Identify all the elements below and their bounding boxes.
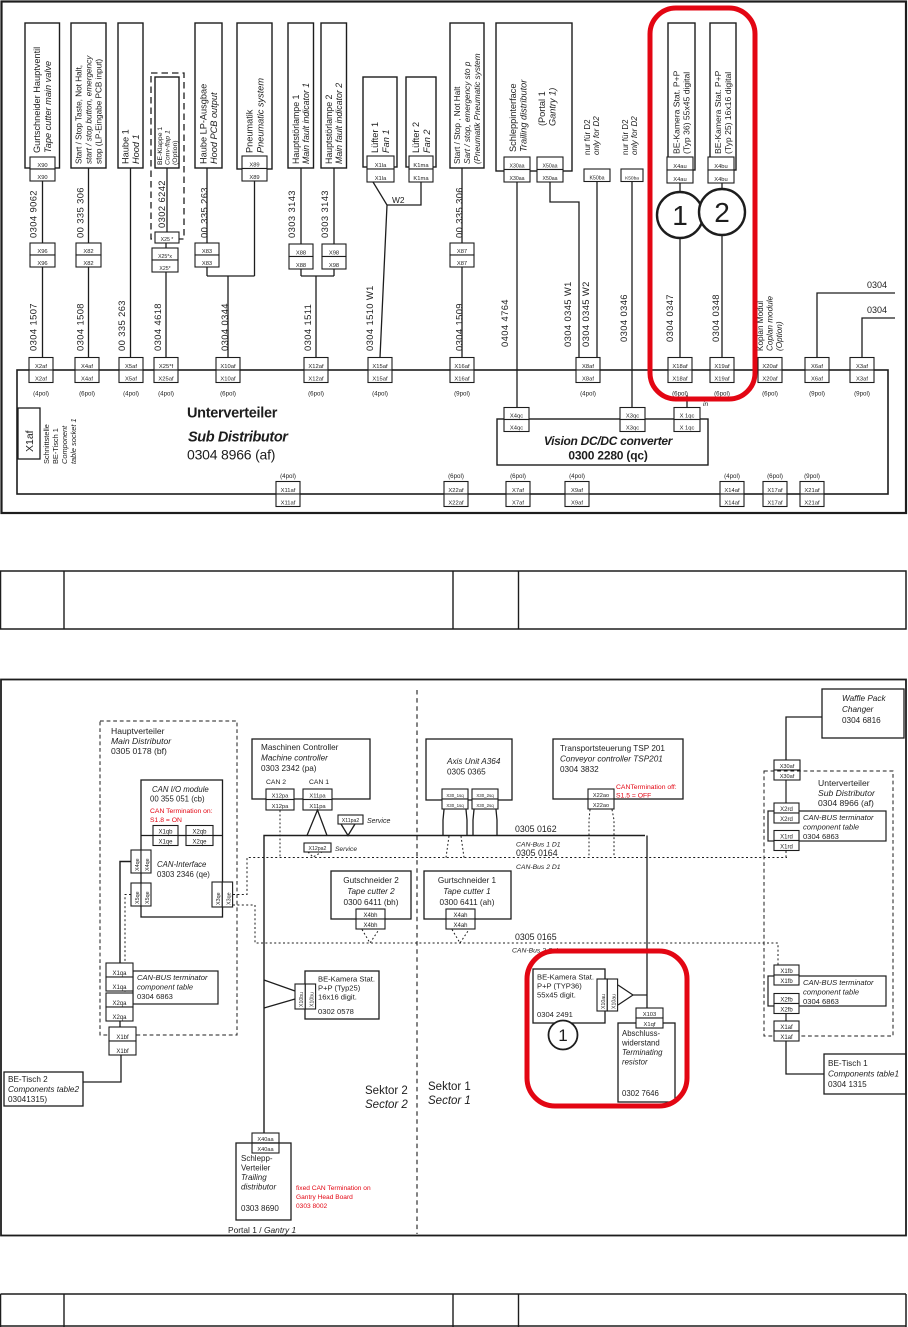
- svg-text:0304 8966 (af): 0304 8966 (af): [818, 798, 874, 808]
- legs X30_2sq to CAN bus 1: [473, 810, 474, 836]
- svg-text:0304 1507: 0304 1507: [28, 303, 39, 351]
- svg-text:X18af: X18af: [672, 364, 688, 370]
- bottom diagram outer frame: [1, 680, 906, 1236]
- svg-text:table socket 1: table socket 1: [69, 418, 78, 464]
- fork to X10au: [618, 985, 633, 1005]
- wire Gurtschneider to X2af: [42, 181, 44, 243]
- svg-text:X9af: X9af: [571, 500, 583, 506]
- svg-text:0305 0178 (bf): 0305 0178 (bf): [111, 746, 167, 756]
- svg-text:X9af: X9af: [571, 488, 583, 494]
- svg-text:0302 7646: 0302 7646: [622, 1089, 659, 1098]
- connector X2qa pair: [106, 993, 133, 1007]
- svg-text:0304 2491: 0304 2491: [537, 1010, 573, 1019]
- svg-text:0303 2342 (pa): 0303 2342 (pa): [261, 764, 317, 773]
- svg-text:X19af: X19af: [714, 364, 730, 370]
- svg-text:component table: component table: [137, 983, 193, 992]
- svg-text:X11pa: X11pa: [309, 793, 326, 799]
- svg-text:X11pa2: X11pa2: [342, 818, 360, 824]
- svg-text:Gantry Head Board: Gantry Head Board: [296, 1194, 353, 1201]
- svg-text:K50ba: K50ba: [625, 175, 639, 181]
- svg-text:X2rd: X2rd: [780, 807, 793, 813]
- svg-text:X88: X88: [296, 250, 306, 256]
- svg-text:Gantry 1: Gantry 1: [264, 1225, 296, 1235]
- wire indicator2 to junction: [333, 168, 335, 244]
- svg-text:X90: X90: [37, 163, 47, 169]
- svg-text:X15af: X15af: [372, 376, 388, 382]
- svg-text:resistor: resistor: [622, 1058, 648, 1067]
- connector X30_2sq pair: [472, 789, 498, 799]
- wire X30aa to Vision X4qc: [516, 182, 518, 408]
- svg-text:(9pol): (9pol): [454, 391, 470, 398]
- svg-text:Main fault indicator 2: Main fault indicator 2: [334, 83, 344, 164]
- svg-text:Maschinen Controller: Maschinen Controller: [261, 743, 339, 752]
- svg-text:(9pol): (9pol): [809, 391, 825, 398]
- connector X2rd pair: [774, 803, 799, 813]
- svg-text:X 1qc: X 1qc: [680, 413, 695, 419]
- svg-text:X4ah: X4ah: [453, 923, 467, 929]
- svg-text:Start / Stop Taste, Not Halt,: Start / Stop Taste, Not Halt,: [74, 65, 83, 164]
- bus connector X25*f: [154, 358, 178, 371]
- svg-text:(Option): (Option): [172, 140, 179, 165]
- component box: Pneumatik / Pneumatic system: [237, 23, 272, 169]
- svg-text:(6pol): (6pol): [510, 473, 526, 480]
- sector divider dashed line: [416, 690, 418, 1234]
- svg-text:(4pol): (4pol): [724, 473, 740, 480]
- svg-text:(6pol): (6pol): [220, 391, 236, 398]
- component box: Hauptstoerlampe 2 / Main fault indicator 2: [321, 23, 347, 168]
- svg-text:X10af: X10af: [220, 376, 236, 382]
- wire X50aa to X8af (W1): [550, 182, 579, 358]
- connector X12pa pair: [266, 789, 294, 800]
- svg-text:(4pol): (4pol): [580, 391, 596, 398]
- connector X4qe pair (rotated): [131, 850, 141, 873]
- top diagram outer frame: [2, 2, 907, 514]
- svg-text:BE-Kamera Stat.: BE-Kamera Stat.: [318, 975, 375, 984]
- svg-text:X103: X103: [643, 1012, 657, 1018]
- svg-text:00 355 051 (cb): 00 355 051 (cb): [150, 795, 205, 804]
- svg-text:X21af: X21af: [804, 488, 820, 494]
- svg-text:CAN-BUS terminator: CAN-BUS terminator: [803, 978, 874, 987]
- svg-text:X10au: X10au: [601, 994, 607, 1009]
- svg-text:0305 0164: 0305 0164: [516, 848, 558, 858]
- svg-text:X3qc: X3qc: [626, 425, 639, 431]
- svg-text:0304: 0304: [867, 280, 887, 290]
- svg-text:X4ah: X4ah: [453, 913, 467, 919]
- svg-text:X30af: X30af: [780, 764, 795, 770]
- svg-text:P+P (TYP36): P+P (TYP36): [537, 982, 582, 991]
- svg-text:00 335 306: 00 335 306: [75, 187, 86, 238]
- svg-text:Verteiler: Verteiler: [241, 1164, 271, 1173]
- svg-text:X89: X89: [249, 162, 259, 168]
- svg-text:X4af: X4af: [81, 376, 93, 382]
- svg-text:Hood PCB output: Hood PCB output: [209, 92, 219, 164]
- svg-text:X12pa2: X12pa2: [309, 846, 327, 852]
- svg-text:X12pa: X12pa: [272, 793, 290, 799]
- svg-text:X4bh: X4bh: [363, 923, 377, 929]
- svg-text:0304 1510 W1: 0304 1510 W1: [364, 285, 375, 351]
- connector K1ma pair under Fan 2: [409, 156, 433, 169]
- wire Haube1 to X5af: [130, 168, 132, 358]
- dashed legs to CAN bus 2: [446, 836, 449, 858]
- svg-text:X12af: X12af: [308, 364, 324, 370]
- svg-text:0304 0346: 0304 0346: [618, 294, 629, 342]
- svg-text:BE-Kamera Stat. P+P: BE-Kamera Stat. P+P: [713, 70, 723, 154]
- svg-text:only for D2: only for D2: [592, 116, 601, 155]
- connector X4au pair under BE-Kamera Typ36: [667, 157, 693, 170]
- connector X87 pair: [450, 243, 474, 255]
- bottom table strip: [1, 1293, 907, 1295]
- svg-text:X30_1sq: X30_1sq: [446, 803, 464, 808]
- svg-text:X1qe: X1qe: [158, 839, 173, 845]
- svg-text:2: 2: [714, 197, 730, 228]
- svg-text:X83: X83: [202, 249, 212, 255]
- wire Fan2 W2: [387, 182, 421, 205]
- bus connector X8af: [576, 358, 600, 371]
- svg-text:X17af: X17af: [767, 488, 783, 494]
- svg-text:BE-Kamera Stat. P+P: BE-Kamera Stat. P+P: [672, 70, 682, 154]
- connector X1af pair (bottom): [774, 1021, 799, 1031]
- svg-text:0304 1508: 0304 1508: [75, 303, 86, 351]
- svg-text:Transportsteuerung TSP 201: Transportsteuerung TSP 201: [560, 744, 665, 753]
- svg-text:X4bu: X4bu: [714, 177, 728, 183]
- svg-text:X25*f: X25*f: [159, 364, 174, 370]
- connector X11pa2 service: [338, 815, 363, 824]
- svg-text:X3af: X3af: [856, 364, 868, 370]
- dashed fork X4bh to CAN-Bus 2 Sub: [362, 930, 379, 944]
- svg-text:(4pol): (4pol): [123, 391, 139, 398]
- connector X30_1sq pair: [442, 789, 468, 799]
- wire X4au to circle 1: [679, 183, 681, 192]
- svg-text:Schlepp-: Schlepp-: [241, 1154, 273, 1163]
- wire CAN bus 1 to X10au/X103: [646, 836, 648, 1009]
- CAN-BUS terminator box (right upper): [768, 811, 886, 841]
- svg-text:X90: X90: [37, 175, 47, 181]
- svg-text:start / stop button, emergency: start / stop button, emergency: [84, 55, 93, 164]
- svg-text:Gurtschneider 1: Gurtschneider 1: [438, 876, 497, 885]
- svg-text:component table: component table: [803, 823, 859, 832]
- connector X2fb pair: [774, 994, 799, 1004]
- connector X1rd pair: [774, 831, 799, 841]
- wire Koplan X6af riser: [817, 293, 895, 358]
- wire pneumatic stop to X16af: [461, 168, 463, 243]
- svg-text:X30aa: X30aa: [509, 163, 524, 169]
- svg-text:X3qc: X3qc: [626, 413, 639, 419]
- svg-text:Service: Service: [335, 846, 357, 853]
- Vision DC/DC converter box: [497, 419, 708, 465]
- svg-text:0300 2280 (qc): 0300 2280 (qc): [568, 449, 647, 463]
- svg-text:X1qf: X1qf: [644, 1022, 656, 1028]
- svg-text:X4qe: X4qe: [145, 858, 151, 871]
- svg-text:BE-Kamera Stat.: BE-Kamera Stat.: [537, 973, 594, 982]
- connector X5qe pair (rotated): [131, 883, 141, 906]
- svg-text:in: in: [703, 401, 708, 408]
- svg-text:X12af: X12af: [308, 376, 324, 382]
- component box: Gurtschneider Hauptventil / Tape cutter main valve: [25, 23, 60, 168]
- svg-text:X4qc: X4qc: [510, 413, 523, 419]
- svg-text:widerstand: widerstand: [621, 1039, 660, 1048]
- svg-text:fixed CAN Termination on: fixed CAN Termination on: [296, 1185, 371, 1192]
- svg-text:(9pol): (9pol): [804, 473, 820, 480]
- svg-text:Schnittstelle: Schnittstelle: [42, 424, 51, 464]
- CAN I/O module + CAN-Interface box: [141, 780, 223, 917]
- svg-text:Tape cutter 1: Tape cutter 1: [443, 887, 491, 896]
- svg-text:Tape cutter main valve: Tape cutter main valve: [43, 61, 53, 153]
- svg-text:Fan 2: Fan 2: [422, 130, 432, 154]
- bus connector X16af: [450, 358, 474, 371]
- svg-text:(6pol): (6pol): [672, 391, 688, 398]
- svg-text:X96: X96: [37, 249, 47, 255]
- bus connector X5af: [119, 358, 143, 371]
- wire Fan1 to X15af with W2 join: [373, 182, 387, 358]
- connector X30af pair: [774, 760, 800, 770]
- component box: Luefter 1 / Fan 1: [363, 77, 397, 167]
- connector X83 pair: [195, 243, 219, 255]
- svg-text:Unterverteiler: Unterverteiler: [187, 406, 278, 422]
- svg-text:X11af: X11af: [281, 500, 296, 506]
- component box: Hauptstoerlampe 1 / Main fault indicator 1: [288, 23, 314, 168]
- svg-text:X40aa: X40aa: [257, 1147, 274, 1153]
- component box: Haube LP-Ausgabe / Hood PCB output: [195, 23, 222, 168]
- svg-text:Fan 1: Fan 1: [381, 130, 391, 154]
- svg-text:(4pol): (4pol): [372, 391, 388, 398]
- svg-text:X83: X83: [202, 261, 212, 267]
- CAN-BUS terminator component table box (left): [133, 971, 218, 1004]
- svg-text:Coplan module: Coplan module: [765, 295, 774, 351]
- svg-text:Sector 1: Sector 1: [428, 1095, 471, 1107]
- legs X30_1sq to CAN bus 1: [443, 810, 444, 836]
- svg-text:X11af: X11af: [281, 488, 296, 494]
- svg-text:Sub Distributor: Sub Distributor: [818, 788, 876, 798]
- svg-text:CAN 1: CAN 1: [309, 779, 329, 786]
- svg-text:0304 6863: 0304 6863: [803, 832, 839, 841]
- svg-text:0304 6816: 0304 6816: [842, 716, 881, 725]
- svg-text:00 335 306: 00 335 306: [454, 187, 465, 238]
- svg-text:CAN-Bus 2 D1: CAN-Bus 2 D1: [516, 864, 561, 871]
- connector X88 pair: [289, 244, 313, 257]
- connector K50ba (first): [584, 169, 610, 182]
- wire Start/Stop to X4af: [88, 168, 90, 243]
- svg-text:0304 9062: 0304 9062: [28, 190, 39, 238]
- svg-text:(6pol): (6pol): [448, 473, 464, 480]
- wire X4bu to circle 2: [721, 183, 723, 189]
- BE-Tisch 1 box: [824, 1054, 906, 1094]
- bus connector X20af: [758, 358, 782, 371]
- svg-text:X87: X87: [457, 249, 467, 255]
- svg-text:Sub Distributor: Sub Distributor: [188, 430, 289, 446]
- svg-text:S1.8 = ON: S1.8 = ON: [150, 817, 182, 824]
- svg-text:X22ao: X22ao: [593, 793, 609, 799]
- svg-text:Conv-flap 1: Conv-flap 1: [164, 130, 171, 165]
- svg-text:Waffle Pack: Waffle Pack: [842, 694, 886, 703]
- svg-text:Components table2: Components table2: [8, 1085, 79, 1094]
- svg-text:Sektor 1: Sektor 1: [428, 1081, 471, 1093]
- component box: Start/Stop Taste Not Halt: [71, 23, 106, 168]
- svg-text:X21af: X21af: [804, 500, 820, 506]
- svg-text:K1ma: K1ma: [413, 163, 429, 169]
- svg-text:0304 6863: 0304 6863: [803, 997, 839, 1006]
- svg-text:(6pol): (6pol): [79, 391, 95, 398]
- svg-text:distributor: distributor: [241, 1183, 276, 1192]
- svg-text:X1la: X1la: [375, 163, 387, 169]
- svg-text:X50aa: X50aa: [542, 176, 557, 182]
- svg-text:(4pol): (4pol): [158, 391, 174, 398]
- wire X2fb to X1af: [785, 1014, 787, 1022]
- svg-text:0304 0347: 0304 0347: [664, 294, 675, 342]
- svg-text:0304 0345 W1: 0304 0345 W1: [562, 281, 573, 347]
- connector X12pa2 service: [304, 843, 331, 852]
- svg-text:(6pol): (6pol): [762, 391, 778, 398]
- svg-text:0303 2346 (qe): 0303 2346 (qe): [157, 870, 210, 879]
- svg-text:Lüfter 2: Lüfter 2: [411, 122, 421, 153]
- connector X1qa pair: [106, 963, 133, 977]
- svg-text:X1qb: X1qb: [158, 829, 173, 835]
- bus connector X15af: [368, 358, 392, 371]
- svg-text:X50aa: X50aa: [542, 163, 557, 169]
- svg-text:X82: X82: [83, 249, 93, 255]
- connector X3qe pair (rotated): [212, 882, 222, 907]
- bus connector X6af: [805, 358, 829, 371]
- connector X11pa pair: [303, 789, 332, 800]
- svg-text:Abschluss-: Abschluss-: [622, 1029, 661, 1038]
- svg-text:X3af: X3af: [856, 376, 868, 382]
- BE-Tisch 2 box: [4, 1072, 83, 1106]
- svg-text:Components table1: Components table1: [828, 1070, 899, 1079]
- svg-text:BE-Klappe 1: BE-Klappe 1: [157, 127, 164, 165]
- svg-text:X8af: X8af: [582, 376, 594, 382]
- svg-text:X98: X98: [329, 263, 339, 269]
- wire X1af to BE-Tisch 1: [786, 1041, 824, 1074]
- connector X1bf pair: [109, 1027, 136, 1041]
- svg-text:(Pneumatik Pneumatic system: (Pneumatik Pneumatic system: [473, 53, 482, 164]
- connector X22ao pair: [588, 789, 614, 799]
- svg-text:X98: X98: [329, 250, 339, 256]
- svg-text:Terminating: Terminating: [622, 1048, 663, 1057]
- svg-text:CAN 2: CAN 2: [266, 779, 286, 786]
- wire X2qa to X1bf: [119, 1021, 121, 1027]
- connector X1qc pair on Vision box: [674, 408, 700, 420]
- connector X4bh pair: [356, 909, 385, 919]
- svg-text:X2rd: X2rd: [780, 817, 793, 823]
- svg-text:(Option): (Option): [775, 321, 784, 351]
- dashed legs X22ao to CAN-Bus 2 D1: [589, 810, 590, 858]
- svg-text:X2af: X2af: [35, 376, 47, 382]
- svg-text:X30_2sq: X30_2sq: [476, 803, 494, 808]
- wire BE-Klappe to X25af: [166, 168, 168, 232]
- bus connector X2af: [29, 358, 53, 371]
- svg-text:CAN Termination on:: CAN Termination on:: [150, 808, 213, 815]
- svg-text:(4pol): (4pol): [569, 473, 585, 480]
- svg-text:X22af: X22af: [448, 500, 464, 506]
- svg-text:X10af: X10af: [220, 364, 236, 370]
- svg-text:Lüfter 1: Lüfter 1: [370, 122, 380, 153]
- svg-text:X17af: X17af: [767, 500, 783, 506]
- svg-text:X11pa: X11pa: [309, 804, 326, 810]
- svg-text:X4qc: X4qc: [510, 425, 523, 431]
- svg-text:X1fb: X1fb: [780, 979, 793, 985]
- Maschinen Controller box: [252, 739, 370, 799]
- svg-text:(4pol): (4pol): [33, 391, 49, 398]
- svg-text:1: 1: [558, 1026, 567, 1045]
- svg-text:X88: X88: [296, 263, 306, 269]
- svg-text:0300 6411 (bh): 0300 6411 (bh): [344, 898, 399, 907]
- svg-text:Schleppinterface: Schleppinterface: [508, 84, 518, 152]
- svg-text:stop (LP-Eingabe PCB input): stop (LP-Eingabe PCB input): [95, 59, 104, 164]
- svg-text:Vision DC/DC converter: Vision DC/DC converter: [544, 434, 674, 448]
- svg-text:X19af: X19af: [714, 376, 730, 382]
- svg-text:0304 1315: 0304 1315: [828, 1080, 867, 1089]
- svg-text:(6pol): (6pol): [767, 473, 783, 480]
- component box: Luefter 2 / Fan 2: [406, 77, 436, 167]
- svg-text:Pneumatik: Pneumatik: [244, 109, 254, 153]
- svg-text:CAN-BUS terminator: CAN-BUS terminator: [803, 813, 874, 822]
- svg-text:0303 8690: 0303 8690: [241, 1204, 279, 1213]
- svg-text:Unterverteiler: Unterverteiler: [818, 778, 870, 788]
- bus connector X3af: [850, 358, 874, 371]
- svg-text:0304 1509: 0304 1509: [454, 303, 465, 351]
- connector X3qc pair on Vision box: [620, 408, 645, 420]
- svg-text:Portal 1 /: Portal 1 /: [228, 1225, 262, 1235]
- svg-text:X4qe: X4qe: [135, 858, 141, 871]
- svg-text:0300 6411 (ah): 0300 6411 (ah): [440, 898, 495, 907]
- svg-text:0302 6242: 0302 6242: [156, 180, 167, 228]
- svg-text:0304: 0304: [867, 305, 887, 315]
- svg-text:Axis Unit A364: Axis Unit A364: [446, 757, 501, 766]
- svg-text:X1qa: X1qa: [112, 985, 127, 991]
- svg-text:CAN-Interface: CAN-Interface: [157, 860, 207, 869]
- svg-text:X1rd: X1rd: [780, 834, 793, 840]
- svg-text:X14af: X14af: [724, 500, 740, 506]
- svg-text:0303 8002: 0303 8002: [296, 1203, 328, 1210]
- svg-text:X2af: X2af: [35, 364, 47, 370]
- svg-text:X89: X89: [249, 175, 259, 181]
- wire K50ba2 to Vision X3qc: [631, 182, 633, 409]
- svg-text:0304 3832: 0304 3832: [560, 765, 599, 774]
- connector X10au pair (rotated): [597, 979, 607, 1011]
- connector X40aa pair: [252, 1133, 279, 1143]
- svg-text:X1af: X1af: [780, 1035, 793, 1041]
- dashed fork X4ah to CAN-Bus 2 Sub: [452, 930, 469, 944]
- CAN-BUS terminator box (right lower): [768, 976, 886, 1006]
- CAN-Bus 2 Sub dashed line: [233, 905, 778, 965]
- connector X4qc pair on Vision box: [504, 408, 529, 420]
- connector X30aa pair under Schleppinterface: [504, 157, 530, 170]
- component box: BE-Klappe 1 (Option), dashed outline: [151, 73, 184, 239]
- fork X11pa to CAN bus 1: [307, 810, 327, 836]
- svg-text:0304 8966 (af): 0304 8966 (af): [187, 447, 275, 463]
- bus connector X18af: [668, 358, 692, 371]
- connector X1qb/X1qe: [153, 826, 178, 836]
- svg-text:X1af: X1af: [24, 430, 36, 452]
- svg-text:Main fault indicator 1: Main fault indicator 1: [301, 83, 311, 164]
- svg-text:X5af: X5af: [125, 376, 137, 382]
- svg-text:component table: component table: [803, 988, 859, 997]
- Gurtschneider 1 / Tape cutter 1 box: [424, 871, 511, 919]
- connector X90 pair under Gurtschneider box: [30, 157, 55, 169]
- Axis Unit A364 box: [426, 739, 512, 800]
- svg-text:00 335 263: 00 335 263: [116, 300, 127, 351]
- connector X25* single: [155, 232, 179, 243]
- svg-text:0304 4618: 0304 4618: [152, 303, 163, 351]
- svg-text:Hauptstörlampe 2: Hauptstörlampe 2: [324, 94, 334, 164]
- svg-text:0304 0348: 0304 0348: [710, 294, 721, 342]
- svg-text:CAN I/O module: CAN I/O module: [152, 785, 209, 794]
- svg-text:K1ma: K1ma: [413, 176, 429, 182]
- connector X2qb/X2qe: [186, 826, 213, 836]
- connector X1fb pair: [774, 965, 799, 975]
- svg-text:Changer: Changer: [842, 705, 874, 714]
- svg-text:X1qa: X1qa: [112, 971, 127, 977]
- svg-text:nur für D2: nur für D2: [583, 119, 592, 155]
